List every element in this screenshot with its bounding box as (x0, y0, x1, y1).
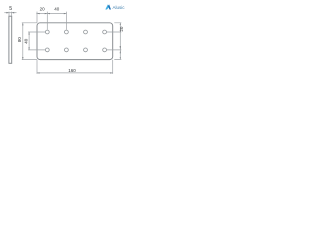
svg-text:40: 40 (24, 38, 29, 44)
top dimension extension lines (37, 12, 66, 30)
svg-text:20: 20 (40, 7, 46, 12)
hole A4 (103, 30, 107, 34)
left dimension 80 extension lines (22, 23, 37, 60)
left dimension 40 line (28, 32, 30, 50)
Alusic logo mark (105, 4, 111, 9)
svg-text:80: 80 (17, 37, 22, 43)
svg-text:5: 5 (9, 6, 12, 12)
top dimension line 20/40 (36, 13, 66, 15)
bottom dimension 160 extension lines (37, 60, 113, 74)
plate outline main view (37, 23, 113, 60)
arrowheads top dim (37, 13, 40, 14)
left dimension 80 line (22, 23, 24, 60)
right dimension 20 line (119, 23, 121, 60)
arrowheads right 20 (120, 23, 121, 25)
hole A1 (45, 30, 49, 34)
hole B2 (65, 48, 69, 52)
arrowheads left 40 (28, 32, 29, 35)
arrowheads left 80 (22, 23, 23, 26)
left dimension 40 extension lines (28, 32, 45, 50)
side view plate (edge view) (9, 16, 12, 63)
hole A2 (65, 30, 69, 34)
svg-text:20: 20 (119, 26, 124, 32)
svg-text:Alusic: Alusic (113, 5, 126, 10)
dimension 5 thickness dim line (4, 12, 16, 14)
bottom dimension 160 line (37, 72, 113, 74)
right dimension 20 extension lines (107, 23, 122, 60)
dimension 5 extension lines (9, 12, 12, 17)
svg-text:40: 40 (54, 7, 60, 12)
hole B4 (103, 48, 107, 52)
arrowheads thickness dim (6, 12, 9, 14)
svg-text:160: 160 (68, 68, 76, 73)
hole A3 (84, 30, 88, 34)
arrowheads bottom 160 (37, 72, 40, 73)
hole B3 (84, 48, 88, 52)
hole B1 (45, 48, 49, 52)
